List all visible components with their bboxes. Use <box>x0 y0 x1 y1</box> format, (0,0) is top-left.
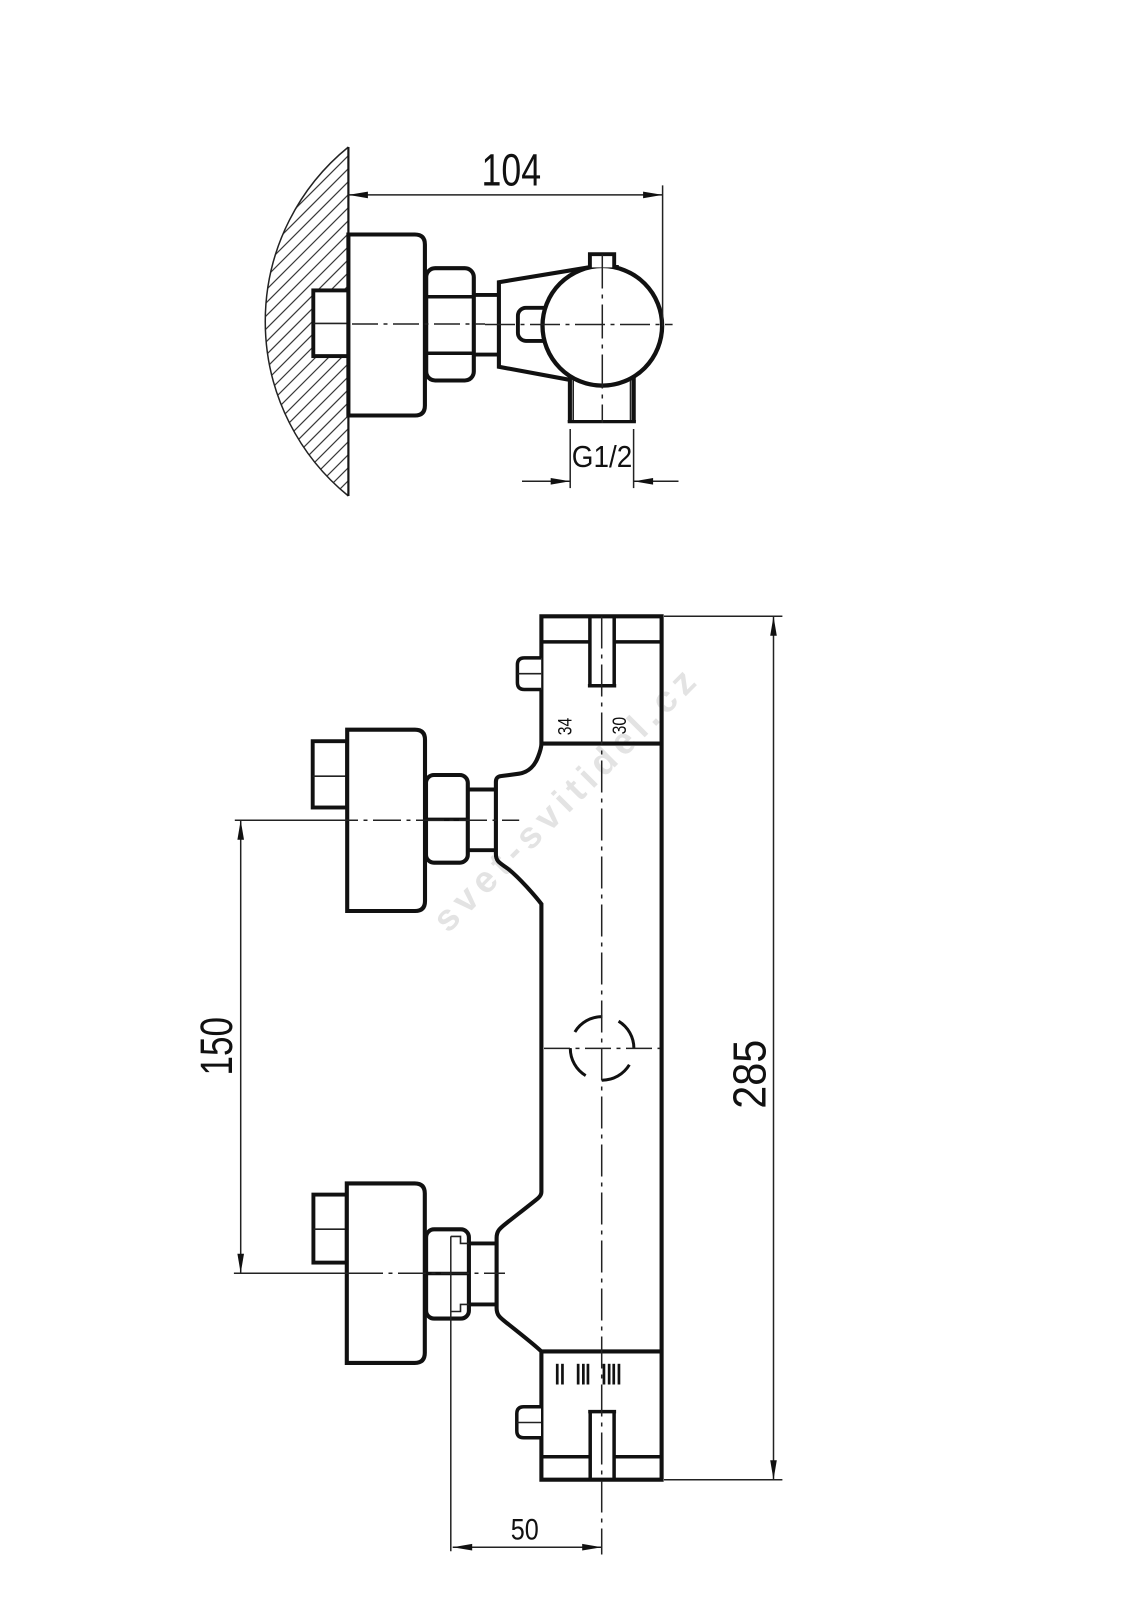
top slot <box>588 617 616 686</box>
top inlet: hex nut <box>426 775 468 863</box>
connecting pipe (top view) <box>472 293 499 297</box>
bottom inlet: flange <box>347 1183 425 1363</box>
svg-text:285: 285 <box>723 1040 775 1109</box>
hex nut (top view) <box>426 268 474 380</box>
bottom inlet: check valve clip detail <box>451 1236 469 1243</box>
wall inlet hex rect <box>313 290 348 356</box>
dimension 150 <box>237 820 244 1273</box>
top left screw protrusion <box>517 658 541 690</box>
svg-text:150: 150 <box>191 1017 242 1076</box>
valve body circle <box>543 266 663 386</box>
bottom slot <box>588 1412 616 1480</box>
wall inlet facet line <box>313 322 348 324</box>
bottom left screw protrusion <box>517 1407 541 1438</box>
wall arc <box>265 147 348 496</box>
temperature scale ticks II <box>556 1364 620 1385</box>
nut facet lines <box>426 295 474 299</box>
main body outline <box>496 616 662 1479</box>
dimension 50 <box>451 1236 602 1551</box>
bottom inlet: nut with check valve <box>426 1229 469 1318</box>
bottom inlet: pipe <box>469 1241 497 1245</box>
svg-text:G1/2: G1/2 <box>572 439 633 474</box>
wall hatching <box>240 0 470 732</box>
body upper section line <box>541 742 661 746</box>
top key tab on valve <box>590 249 613 267</box>
knob horizontal centerline <box>544 1047 660 1049</box>
body bottom cap line <box>541 1455 590 1459</box>
top view horizontal centerline <box>485 324 673 326</box>
top view vertical centerline <box>601 255 603 424</box>
dimension G1/2 <box>522 429 679 488</box>
top inlet: wall hex rect <box>313 741 348 807</box>
outlet pipe below valve <box>568 370 636 422</box>
svg-text:104: 104 <box>482 145 542 196</box>
top inlet: flange <box>347 730 425 911</box>
svg-text:50: 50 <box>511 1513 539 1546</box>
top inlet: pipe <box>468 788 496 792</box>
small side tab on valve <box>518 308 558 341</box>
wall surface line <box>347 147 349 496</box>
svg-text:34: 34 <box>555 718 577 736</box>
bottom inlet: wall hex rect <box>313 1195 346 1263</box>
top inlet centerline <box>235 819 330 821</box>
valve cone bracket <box>499 267 602 380</box>
body lower section line <box>541 1349 661 1353</box>
body top cap line <box>541 640 590 644</box>
dimension 104 <box>348 185 662 326</box>
front vertical centerline <box>601 617 603 1555</box>
bottom inlet centerline <box>234 1272 355 1274</box>
dimension 285 <box>664 616 782 1479</box>
knob circle (dashed arcs) <box>570 1017 634 1081</box>
flange body (top view) <box>348 235 425 416</box>
